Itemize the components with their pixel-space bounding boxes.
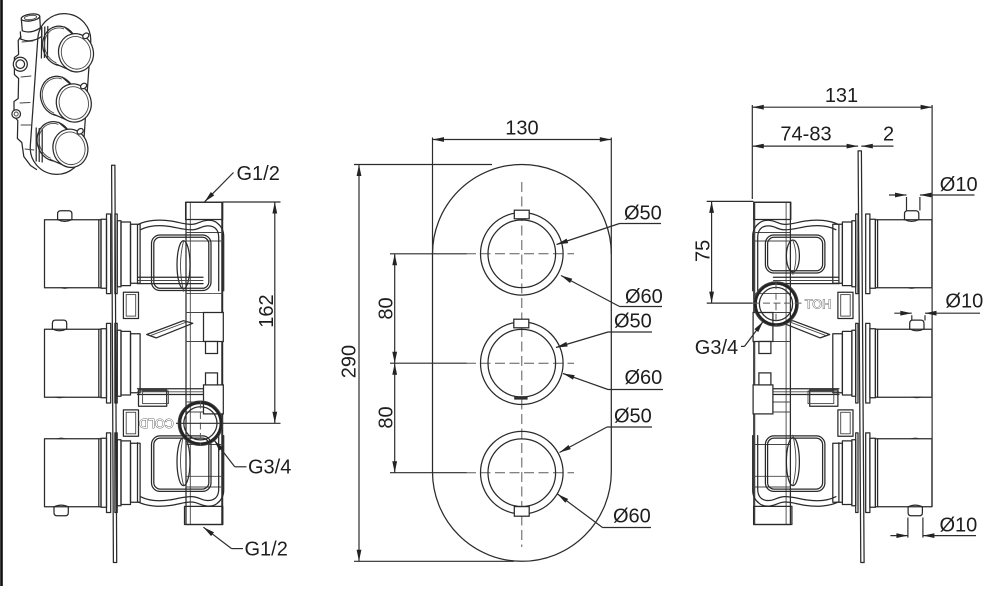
left view: side inlet port G3/4 outer ring — [178, 401, 223, 446]
left view: bracket window outer — [152, 436, 212, 492]
right view: body column step line — [754, 401, 791, 403]
left view: wall plate (thin panel) — [112, 165, 117, 562]
left view: parallelogram bracket pad — [147, 321, 193, 338]
left view: lower rails — [138, 388, 206, 390]
front view: knob 2 bottom tick — [514, 396, 527, 399]
right view: knob 2 escutcheon ring B — [866, 323, 870, 403]
right view: top outlet port G1/2 block — [754, 202, 791, 219]
iso: knob 3 front face — [49, 125, 92, 171]
right view: dimension diam 10 knob1 nub — [889, 194, 907, 196]
right view: knob 3 escutcheon ring A — [870, 438, 876, 507]
dimension 80 lower — [394, 363, 396, 473]
left view: dimension 162 — [274, 202, 276, 423]
dimension 80 upper — [394, 254, 396, 363]
right view: body front face edge lower — [838, 443, 840, 502]
left view: knob 3 index nub — [54, 507, 68, 516]
right view: dimension 75 — [711, 201, 713, 303]
iso: knob 3 nub — [76, 127, 84, 135]
right view: knob 3 flange behind plate — [856, 433, 858, 513]
left view: side inlet port G3/4 inner ring — [184, 407, 217, 440]
svg-text:G3/4: G3/4 — [695, 337, 738, 359]
svg-text:COLD: COLD — [139, 416, 174, 430]
right view: knob 3 cartridge body — [833, 443, 843, 502]
front view: knob 1 inner circle diam 50 — [488, 220, 556, 288]
front view: knob 3 inner circle diam 50 — [488, 439, 556, 507]
right view: body column step line — [754, 411, 791, 413]
right view: side inlet port G3/4 inner ring — [759, 287, 792, 320]
extension line knob2 center — [390, 362, 467, 364]
right view: step block right lower — [753, 385, 773, 414]
left view: bracket window outer — [152, 235, 212, 291]
left view: knob 2 face line — [98, 329, 100, 397]
right view: knob 3 top tick — [909, 438, 921, 440]
left view: knob 2 mounting ring — [117, 330, 121, 396]
iso: body silhouette — [14, 37, 37, 170]
svg-text:80: 80 — [376, 406, 398, 428]
right view: dimension 74-83 — [752, 145, 858, 147]
right view: 75 top extension line — [707, 200, 754, 202]
iso: top inlet cylinder cap — [21, 13, 40, 22]
right view: lower bracket (mirrored) — [753, 435, 839, 506]
right view: lower rails — [771, 388, 839, 390]
right view: bracket window outer — [765, 235, 825, 273]
front view: knob 1 index tab — [514, 210, 529, 219]
iso: screw head — [12, 110, 21, 119]
right view: knob 2 face line — [877, 329, 879, 397]
left view: knob 1 escutcheon ring A — [101, 219, 107, 288]
left view: inlet boss block — [139, 390, 167, 406]
left view: knob 2 flange behind plate — [115, 323, 117, 403]
left view: body column step line — [186, 341, 223, 343]
right view: body column step line — [754, 293, 791, 295]
iso: knob 1 front face — [54, 30, 97, 76]
svg-text:Ø60: Ø60 — [625, 367, 663, 389]
iso: knob 1 cylinder — [56, 27, 80, 71]
right view: knob 2 cartridge body — [833, 334, 843, 393]
right view: knob 1 bottom tick — [906, 287, 918, 289]
svg-text:G3/4: G3/4 — [248, 457, 291, 479]
dimension 290 top extension line — [354, 164, 492, 166]
right view: upper bracket — [753, 220, 839, 291]
svg-text:80: 80 — [376, 297, 398, 319]
right view: body column step line — [754, 475, 791, 477]
right view: mounting bracket strap outer edge — [753, 436, 839, 507]
right view: body column step line — [754, 232, 791, 234]
right view: side inlet port G3/4 outer ring — [754, 282, 799, 327]
extension line knob1 center — [390, 253, 467, 255]
svg-text:Ø10: Ø10 — [945, 291, 983, 313]
front view: knob 3 horizontal centerline — [466, 472, 574, 474]
front view: knob 2 index tab — [514, 319, 529, 328]
svg-text:Ø10: Ø10 — [940, 514, 978, 536]
right view: knob 1 flange behind plate — [856, 214, 858, 294]
right view: step block small — [759, 342, 771, 354]
left view: lower bracket (mirrored) — [138, 435, 224, 506]
left view: knob 3 top tick — [55, 438, 67, 440]
iso: knob 1 nub — [82, 32, 90, 40]
iso: knob 1 back ring — [39, 22, 82, 69]
right view: mounting bracket strap inner edge — [758, 436, 836, 501]
right view: knob 3 face line — [877, 439, 879, 507]
svg-text:75: 75 — [693, 240, 715, 262]
front view: knob 3 outer circle diam 60 — [481, 431, 564, 514]
left view: mounting bracket strap outer edge — [138, 436, 224, 507]
right view: body column step line — [754, 444, 791, 446]
iso: knob 2 cylinder — [54, 77, 78, 121]
right view: knob 1 escutcheon ring A — [870, 219, 876, 288]
right view: mounting bracket strap outer edge — [753, 220, 839, 291]
right view: dimension 2 plate thickness — [861, 145, 893, 147]
right view: pipe coupling block — [838, 292, 853, 318]
iso: face plate oval — [28, 12, 92, 176]
left view: body column step line — [186, 312, 223, 314]
left view: mounting bracket strap outer edge — [138, 220, 224, 291]
front view: knob 2 horizontal centerline — [466, 362, 574, 364]
iso: knob 2 face ring — [56, 84, 92, 123]
iso: top inlet cylinder sides — [21, 19, 22, 31]
isometric view group — [12, 12, 98, 176]
front view: knob 3 index tab — [514, 507, 529, 517]
right side view group (mirrored) — [753, 151, 932, 563]
left view: knob 1 mounting ring — [117, 221, 121, 287]
front view: oval face plate outline — [433, 165, 612, 562]
right view: dimension diam 10 knob2 nub — [894, 312, 912, 314]
left view: body column step line — [186, 232, 223, 234]
dimension 130 right extension line — [610, 138, 612, 254]
dimension 290 bottom extension line — [354, 560, 514, 562]
iso: knob 3 back ring — [33, 118, 76, 165]
right view: knob 2 flange behind plate — [856, 323, 858, 403]
left view: knob 2 bottom tick — [54, 397, 66, 399]
iso: knob 2 back ring — [36, 73, 79, 120]
left view: knob 1 body — [45, 220, 102, 288]
left view: knob 2 index nub — [52, 320, 66, 329]
left side view group — [45, 165, 224, 562]
right view: knob 1 cartridge collar — [842, 222, 852, 286]
right view: body column right edge — [754, 202, 756, 524]
left view: body column step line — [186, 411, 223, 413]
left view: knob 3 mounting ring — [117, 440, 121, 506]
right view: inlet boss block — [810, 390, 838, 406]
svg-text:130: 130 — [505, 118, 538, 140]
right view: outlet pipe section in window — [786, 240, 799, 272]
right view: bottom outlet port G1/2 block — [754, 506, 792, 524]
right view: knob 2 cartridge collar — [842, 331, 852, 395]
right view: knob 1 cartridge body — [833, 224, 843, 283]
left view: knob 3 cartridge collar — [121, 441, 131, 505]
right view: knob 3 body — [875, 439, 932, 507]
right view: body column step line — [754, 312, 791, 314]
left view: label G1/2 bottom with leader — [203, 527, 231, 548]
right view: step block small lower — [759, 373, 771, 385]
right view: body column step line — [754, 341, 791, 343]
left view: body column step line — [186, 444, 223, 446]
right view: dimension diam 10 knob3 nub — [890, 535, 908, 537]
iso: bracket rails lower — [36, 128, 42, 162]
dimension 130 left extension line — [432, 138, 434, 254]
right view: knob 1 body — [875, 220, 932, 288]
right view: upper rails — [773, 276, 839, 278]
right view: 75 bottom extension line — [707, 302, 753, 304]
left view: cartridge side block — [123, 410, 138, 436]
svg-text:HOT: HOT — [804, 298, 831, 312]
front view: knob 2 outer circle diam 60 — [481, 322, 564, 405]
right view: cartridge side block — [838, 410, 853, 436]
left view: pipe coupling block — [123, 292, 138, 318]
right view: label G3/4 with leader — [741, 345, 745, 347]
right view: knob 1 mounting ring — [852, 221, 856, 287]
left view: body column step line — [186, 475, 223, 477]
left view: step block small lower — [206, 373, 218, 385]
left view: label G1/2 top with leader — [205, 173, 234, 202]
dimension 290 left height — [358, 165, 360, 562]
left view: knob 1 cartridge body — [131, 224, 141, 283]
svg-text:131: 131 — [825, 85, 858, 107]
drawing frame left border — [0, 0, 3, 586]
right view: knob 2 mounting ring — [852, 330, 856, 396]
left view: top outlet port G1/2 block — [186, 202, 223, 219]
svg-text:Ø50: Ø50 — [614, 311, 652, 333]
front view: knob 1 horizontal centerline — [466, 253, 574, 255]
right view: body column step line — [754, 486, 791, 488]
left view: knob 3 cartridge body — [131, 443, 141, 502]
front view: knob 1 outer circle diam 60 — [481, 213, 564, 296]
right view: knob 2 body — [875, 329, 932, 397]
left view: valve body column — [186, 202, 223, 524]
left view: knob 3 escutcheon ring A — [101, 438, 107, 507]
right view: body column step line — [754, 240, 791, 242]
right view: 131 right extension line — [931, 105, 933, 507]
left view: outlet pipe section in window — [177, 241, 190, 289]
left view: body column step line — [186, 293, 223, 295]
svg-text:Ø50: Ø50 — [624, 203, 662, 225]
right view: knob 2 index nub — [910, 320, 924, 329]
iso: side port eyelet inner — [16, 60, 25, 69]
svg-text:G1/2: G1/2 — [245, 538, 288, 560]
svg-text:Ø60: Ø60 — [613, 506, 651, 528]
right view: body front face edge upper — [838, 225, 840, 284]
left view: body column step line — [186, 486, 223, 488]
right view: knob 1 index nub — [905, 211, 919, 220]
right view: step block right — [753, 313, 773, 342]
left view: 162 bottom extension line / port centerline — [176, 422, 281, 424]
iso: bracket rails upper — [41, 27, 47, 59]
left view: knob 1 bottom tick — [59, 287, 71, 289]
svg-text:162: 162 — [256, 294, 278, 327]
left view: bracket window inner — [154, 438, 209, 489]
left view: body column step line — [186, 401, 223, 403]
left view: mounting bracket strap inner edge — [141, 436, 219, 501]
right view: knob 1 face line — [877, 220, 879, 288]
front view: knob 2 inner circle diam 50 — [488, 329, 556, 397]
iso: inlet collar — [20, 29, 42, 39]
left view: knob 3 escutcheon ring B — [107, 433, 111, 513]
right view: bracket window outer — [765, 436, 825, 492]
right view: knob 2 bottom tick — [911, 397, 923, 399]
left view: knob 3 flange behind plate — [115, 433, 117, 513]
right view: knob 2 escutcheon ring A — [870, 329, 876, 398]
left view: body column right edge — [221, 202, 223, 524]
left view: outlet pipe section in window — [177, 438, 190, 486]
right view: knob 3 index nub — [908, 507, 922, 516]
right view: port horizontal centerline — [753, 302, 806, 304]
left view: port vertical centerline — [199, 402, 201, 446]
right view: mounting bracket strap inner edge — [758, 226, 836, 291]
left view: step block right lower — [204, 385, 224, 414]
left view: step block right — [204, 313, 224, 342]
iso: knob 2 front face — [52, 80, 95, 126]
right view: valve body column — [754, 202, 791, 524]
left view: knob 1 flange behind plate — [115, 214, 117, 294]
left view: knob 3 face line — [98, 439, 100, 507]
iso: body-plate connector lines — [20, 41, 34, 150]
svg-text:Ø60: Ø60 — [625, 286, 663, 308]
dimension 130 top width — [433, 139, 612, 141]
right view: wall plate (thin panel) — [858, 151, 864, 563]
right view: knob 3 escutcheon ring B — [866, 433, 870, 513]
left view: knob 1 face line — [98, 220, 100, 288]
left view: knob 2 body — [45, 329, 102, 397]
iso: side port eyelet outer — [13, 57, 27, 71]
right view: bracket window inner — [768, 237, 823, 270]
iso: knob 3 cylinder — [50, 122, 74, 166]
right view: knob 3 mounting ring — [852, 440, 856, 506]
extension line knob3 center — [390, 472, 467, 474]
svg-text:74-83: 74-83 — [780, 123, 831, 145]
left view: bottom outlet port G1/2 block — [185, 506, 223, 524]
left view: knob 3 body — [45, 439, 102, 507]
left view: body column inner left line — [189, 202, 191, 524]
left view: body column step line — [186, 240, 223, 242]
front view: vertical centerline — [521, 182, 523, 547]
left view: body front face edge upper — [137, 225, 139, 284]
left view: body front face edge lower — [137, 443, 139, 502]
left view: upper bracket — [138, 220, 224, 291]
left view: knob 2 cartridge collar — [121, 331, 131, 395]
right view: knob 1 escutcheon ring B — [866, 214, 870, 294]
left view: upper rails — [138, 276, 204, 278]
left view: knob 1 index nub — [58, 211, 72, 220]
right view: 131 left extension line — [751, 105, 753, 199]
svg-text:G1/2: G1/2 — [237, 163, 280, 185]
iso: knob 3 face ring — [52, 129, 88, 168]
iso: knob 1 face ring — [58, 33, 94, 72]
left view: knob 2 cartridge body — [131, 334, 141, 393]
svg-text:Ø50: Ø50 — [614, 406, 652, 428]
svg-text:290: 290 — [339, 345, 361, 378]
svg-text:Ø10: Ø10 — [940, 174, 978, 196]
svg-text:2: 2 — [883, 123, 894, 145]
left view: knob 2 escutcheon ring A — [101, 329, 107, 398]
left view: 162 top extension line — [223, 201, 281, 203]
left view: knob 2 escutcheon ring B — [107, 323, 111, 403]
right view: knob 3 cartridge collar — [842, 441, 852, 505]
left view: knob 1 cartridge collar — [121, 222, 131, 286]
right view: outlet pipe section in window — [786, 438, 799, 486]
left view: label G3/4 with leader — [214, 440, 235, 467]
right view: dimension 131 — [752, 106, 932, 108]
right view: body column inner left line — [785, 202, 787, 524]
left view: mounting bracket strap inner edge — [141, 226, 219, 291]
left view: bracket window inner — [154, 237, 209, 288]
left view: knob 1 escutcheon ring B — [107, 214, 111, 294]
iso: knob 2 nub — [79, 82, 87, 90]
right view: bracket window inner — [768, 438, 823, 489]
right view: parallelogram bracket pad — [784, 321, 830, 338]
right view: port vertical centerline — [775, 282, 777, 326]
left view: step block small — [206, 342, 218, 354]
